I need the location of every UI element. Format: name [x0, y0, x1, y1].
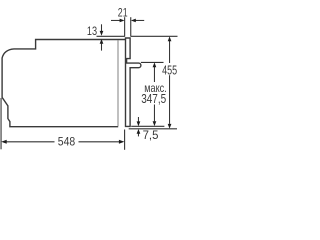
dimension 548	[1, 140, 124, 144]
door front panel bar with handle	[126, 38, 141, 126]
dimension 455	[168, 36, 172, 128]
appliance body outline	[2, 40, 125, 127]
svg-text:13: 13	[87, 24, 97, 38]
svg-text:21: 21	[118, 6, 128, 20]
455 top reference line (right of door bar)	[131, 35, 178, 37]
13 top reference line (left of door bar)	[97, 35, 125, 37]
svg-text:455: 455	[162, 62, 177, 77]
dimension 13	[100, 24, 104, 50]
floor line	[129, 128, 177, 130]
dimension 21	[111, 19, 144, 23]
body front face (behind door)	[117, 40, 119, 126]
svg-text:7,5: 7,5	[143, 128, 159, 142]
thin reference/extension lines	[1, 17, 177, 150]
548 extension lines	[0, 98, 2, 149]
maks 347,5 top reference line (from handle)	[141, 61, 164, 63]
svg-text:548: 548	[58, 134, 75, 148]
dimension maks 347,5	[153, 62, 157, 126]
lower ext line at door bottom	[131, 125, 164, 127]
svg-text:347,5: 347,5	[141, 91, 166, 106]
21 extension lines	[124, 17, 126, 36]
dimension 7,5	[137, 117, 141, 136]
